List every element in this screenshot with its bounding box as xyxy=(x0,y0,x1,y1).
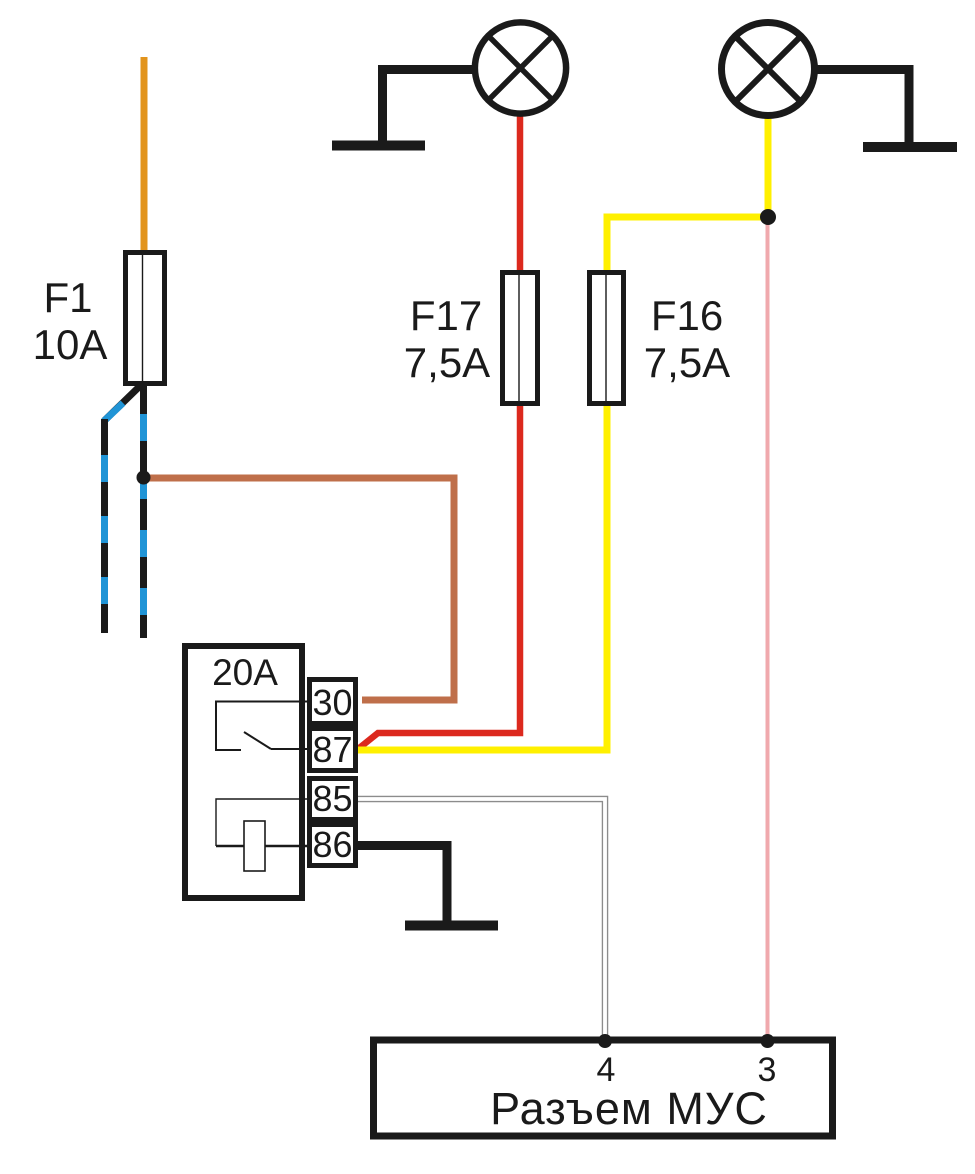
svg-text:7,5A: 7,5A xyxy=(404,339,490,386)
pin box 86 xyxy=(310,825,356,866)
junction node at F1 output xyxy=(137,471,151,485)
svg-text:7,5A: 7,5A xyxy=(644,339,730,386)
svg-text:F1: F1 xyxy=(43,274,92,321)
ground wire from pin 86 xyxy=(358,846,498,926)
relay coil 85-86 xyxy=(216,799,307,846)
ground of lamp right xyxy=(814,70,957,148)
svg-text:4: 4 xyxy=(597,1051,616,1089)
wire brown from junction to pin 30 xyxy=(143,478,454,700)
wire pink from junction to connector pin 3 xyxy=(766,220,770,1040)
connector box Разъем МУС xyxy=(374,1040,833,1136)
relay coil body xyxy=(244,821,265,871)
svg-text:85: 85 xyxy=(312,778,352,819)
node pin 4 xyxy=(598,1034,612,1048)
pin box 30 xyxy=(310,680,356,724)
svg-text:20A: 20A xyxy=(212,652,278,693)
svg-text:86: 86 xyxy=(312,824,352,865)
wire orange supply to F1 xyxy=(141,57,148,256)
svg-text:F17: F17 xyxy=(410,292,482,339)
lamp HL right xyxy=(722,23,815,116)
svg-text:87: 87 xyxy=(312,729,352,770)
junction node below lamp right xyxy=(760,209,776,225)
ground of lamp left xyxy=(332,70,475,146)
wire blue-black dashed left (diagonal part) xyxy=(104,385,141,421)
label F16 7,5A xyxy=(644,292,730,386)
svg-text:3: 3 xyxy=(758,1051,777,1089)
fuse F1 xyxy=(126,250,165,384)
wire white-gray from pin 85 to connector pin 4 xyxy=(358,799,605,1040)
wire yellow from lamp right through F16 to pin 87 xyxy=(358,115,768,750)
fuse F17 xyxy=(503,270,538,404)
svg-text:30: 30 xyxy=(312,682,352,723)
svg-text:F16: F16 xyxy=(651,292,723,339)
fuse F16 xyxy=(590,270,624,404)
wire blue-black dashed right xyxy=(140,385,147,638)
relay contact 30-87 xyxy=(216,702,307,751)
relay K box 20A xyxy=(185,646,302,898)
lamp HL left xyxy=(475,22,566,113)
label F17 7,5A xyxy=(404,292,490,386)
pin box 87 xyxy=(310,729,356,771)
wire red from lamp left through F17 to pin 87 xyxy=(358,112,520,749)
wire blue-black dashed left (vertical part) xyxy=(101,419,108,633)
svg-text:Разъем МУС: Разъем МУС xyxy=(490,1083,768,1134)
node pin 3 xyxy=(761,1034,775,1048)
pin box 85 xyxy=(310,779,356,820)
svg-text:10A: 10A xyxy=(33,321,108,368)
label F1 10A xyxy=(33,274,108,368)
